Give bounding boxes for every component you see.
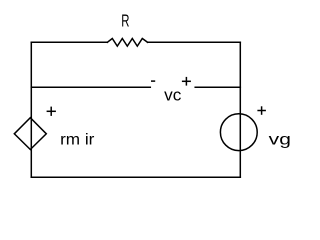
wire top-left segment xyxy=(31,41,107,43)
wire middle-left (to - terminal of vc) xyxy=(31,86,150,88)
label - (vc negative) xyxy=(151,80,155,82)
svg-text:vc: vc xyxy=(164,86,181,105)
wire middle-right (from + terminal of vc) xyxy=(195,86,240,88)
svg-text:R: R xyxy=(121,11,129,31)
label + (vg polarity) xyxy=(257,106,266,115)
resistor R (zigzag body) xyxy=(107,39,147,47)
wire bottom xyxy=(31,176,240,178)
independent source vg (circle) xyxy=(220,114,257,151)
wire left vertical xyxy=(30,42,32,177)
label + (vc positive) xyxy=(182,77,191,86)
svg-text:rm ir: rm ir xyxy=(60,132,95,149)
dependent source rm ir (diamond) xyxy=(14,118,46,150)
label + (rm ir source polarity) xyxy=(47,107,56,116)
wire right vertical xyxy=(239,42,241,177)
svg-text:vg: vg xyxy=(269,131,291,148)
wire top-right segment xyxy=(148,41,241,43)
